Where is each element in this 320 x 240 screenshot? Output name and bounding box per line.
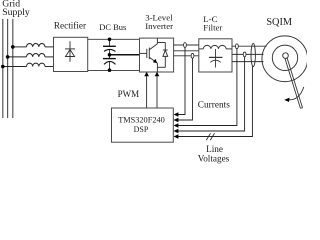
svg-text:DC Bus: DC Bus <box>99 22 126 32</box>
wire tap phase B <box>8 56 27 58</box>
wire to rectifier B <box>45 56 54 58</box>
svg-text:Rectifier: Rectifier <box>54 20 86 30</box>
DSP input arrow 1 <box>174 112 179 116</box>
wire PWM 2 <box>156 76 158 108</box>
node C <box>1 65 5 69</box>
svg-text:Inverter: Inverter <box>145 21 173 31</box>
svg-text:Supply: Supply <box>2 7 30 18</box>
svg-text:Currents: Currents <box>198 100 230 110</box>
label Line Voltages <box>198 144 230 164</box>
wire voltage sense 1 <box>177 49 237 126</box>
capacitor Cf <box>209 49 223 68</box>
motor SQIM outer <box>262 36 308 82</box>
wire tap phase A <box>13 46 27 48</box>
wire PWM 1 <box>146 76 148 108</box>
svg-text:DSP: DSP <box>134 125 149 134</box>
wire to rectifier C <box>45 66 54 68</box>
inductor La <box>27 44 45 47</box>
motor shaft <box>285 58 303 108</box>
wire DC midpoint rail <box>110 54 140 56</box>
rotation arrow <box>289 87 304 100</box>
wire voltage sense 3 <box>177 66 253 137</box>
capacitor C1 <box>103 46 116 51</box>
label L-C Filter <box>203 14 222 32</box>
transistor IGBT <box>140 38 166 72</box>
motor stator winding ellipse <box>251 44 255 67</box>
wire filter out 1 <box>232 45 267 47</box>
diode D2 freewheel <box>163 43 168 68</box>
wire filter out 2 <box>232 53 264 55</box>
wire inverter out 2 <box>174 50 199 52</box>
svg-text:SQIM: SQIM <box>266 17 292 28</box>
diode D1 <box>65 41 75 62</box>
DSP box <box>112 108 174 142</box>
capacitor C2 <box>103 59 116 65</box>
wire DC- rail <box>88 69 140 71</box>
wire tap phase C <box>3 66 27 68</box>
DSP input arrow 5 <box>174 134 179 138</box>
grid supply bus lines (3-phase) <box>3 19 13 118</box>
svg-text:Filter: Filter <box>203 23 222 33</box>
wire to rectifier A <box>45 46 54 48</box>
svg-text:TMS320F240: TMS320F240 <box>118 115 165 124</box>
DSP input arrow 3 <box>174 123 179 127</box>
wire filter out 3 <box>232 61 264 63</box>
L-C filter box <box>199 39 232 72</box>
current sensor CT2 <box>191 53 194 58</box>
voltage sensor PT1 <box>236 44 239 49</box>
node B <box>6 55 10 59</box>
current sensor CT1 <box>184 43 187 48</box>
wire voltage sense 2 <box>177 57 245 131</box>
wire inverter out 3 <box>174 55 199 57</box>
node DC mid <box>108 53 112 57</box>
inverter box <box>140 38 174 72</box>
rectifier box <box>54 37 88 71</box>
node DC+ <box>108 38 112 42</box>
emitter arrow <box>153 59 157 63</box>
svg-text:Line: Line <box>206 144 223 154</box>
label TMS320F240 DSP <box>118 115 165 134</box>
DSP input arrow 4 <box>174 129 179 133</box>
wire DC bus vertical segments <box>109 39 111 70</box>
inductor Lb <box>27 54 45 57</box>
voltage sensor PT2 <box>243 52 246 57</box>
wire inverter out 1 <box>174 44 199 46</box>
motor hub <box>283 53 289 59</box>
multiwire slash <box>206 133 214 140</box>
inductor Lc <box>27 63 45 66</box>
inductor Lf <box>199 45 232 49</box>
motor inner <box>272 45 297 70</box>
DSP input arrow 2 <box>174 118 179 122</box>
wire DC+ rail <box>88 38 140 40</box>
svg-text:PWM: PWM <box>118 89 140 99</box>
node DC- <box>108 68 112 72</box>
wire current sense 1 <box>177 47 185 114</box>
node A <box>11 45 15 49</box>
label Grid Supply <box>2 0 30 18</box>
svg-text:Voltages: Voltages <box>198 154 230 164</box>
label 3-Level Inverter <box>145 12 173 31</box>
wire current sense 2 <box>177 58 193 120</box>
